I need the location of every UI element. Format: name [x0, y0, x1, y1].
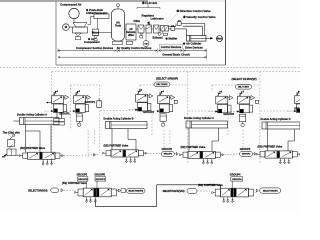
svg-text:SMART/SAFE(V/H): SMART/SAFE(V/H): [163, 190, 185, 193]
svg-text:GROUP5: GROUP5: [78, 179, 88, 181]
compressor C1: [73, 23, 87, 28]
svg-text:Tank: Tank: [115, 24, 122, 28]
clamp cylinder C2: [240, 114, 246, 122]
svg-text:Double Acting Cylinder D: Double Acting Cylinder D: [261, 118, 291, 121]
svg-text:Chiller/Separator: Chiller/Separator: [86, 11, 108, 15]
svg-text:(5/2) PARTNER Valve: (5/2) PARTNER Valve: [62, 182, 87, 185]
svg-text:GROUP4: GROUP4: [230, 174, 241, 177]
outer dashed station box: [52, 71, 300, 73]
svg-text:SELECTOR(V/H): SELECTOR(V/H): [263, 190, 278, 192]
arrow after V8: [116, 190, 118, 192]
general basic circuit box: [0, 0, 148, 2]
motor M: [63, 24, 70, 31]
svg-text:GROUP5: GROUP5: [77, 174, 88, 177]
stadium sel4: [260, 188, 281, 193]
svg-text:Exhaust: Exhaust: [153, 36, 163, 40]
cylinder C ports down: [188, 128, 190, 151]
svg-text:Work: Work: [217, 39, 223, 41]
main dashed bus: [0, 66, 300, 68]
clamp cylinder A2: [76, 114, 82, 122]
svg-text:DBL T2 MOV: DBL T2 MOV: [157, 84, 169, 86]
dashed cylinder boxes: [100, 110, 152, 112]
svg-text:(5/2) PARTNER Valve: (5/2) PARTNER Valve: [20, 147, 45, 150]
valve V7 (cut): [296, 90, 301, 95]
big valve V9: [220, 188, 248, 197]
link valve3 to group3 stadium: [224, 153, 239, 156]
dashed stub verticals: [87, 130, 89, 158]
FLR filter: [138, 25, 144, 33]
svg-text:GROUP2: GROUP2: [164, 154, 173, 156]
direction control valve: [161, 26, 169, 32]
svg-text:⑤ Velocity Control Valve: ⑤ Velocity Control Valve: [183, 15, 216, 19]
air tank: [112, 9, 125, 41]
svg-text:DBL T2 MOV: DBL T2 MOV: [238, 87, 250, 89]
receiver box B: [174, 100, 177, 103]
svg-text:GRP: GRP: [294, 108, 300, 111]
svg-text:Double Acting Cylinder C: Double Acting Cylinder C: [184, 117, 214, 120]
svg-text:Drive Devices: Drive Devices: [185, 45, 203, 49]
svg-text:GROUP2: GROUP2: [143, 111, 154, 114]
svg-text:Compressor: Compressor: [84, 40, 100, 44]
air dehumidifier: [126, 24, 136, 40]
valve V6: [239, 91, 244, 96]
svg-text:⑤ FLR Unit: ⑤ FLR Unit: [142, 1, 157, 5]
V8 exhaust loop: [94, 201, 96, 207]
stadium select1: [154, 82, 170, 87]
valve V2 group1: [75, 90, 80, 95]
stadium sel3: [187, 189, 197, 194]
svg-text:(SELECT S/P)(H/P): (SELECT S/P)(H/P): [156, 77, 178, 80]
svg-text:GROUP4: GROUP4: [232, 178, 242, 181]
valve V5 group3: [217, 91, 222, 96]
svg-text:GROUP2: GROUP2: [162, 148, 173, 151]
svg-text:CW: CW: [144, 43, 147, 45]
svg-text:GROUP3: GROUP3: [242, 154, 251, 156]
svg-text:Compressor Section Devices: Compressor Section Devices: [76, 46, 114, 50]
cylinder A rod: [14, 120, 20, 122]
svg-text:Water: Water: [92, 30, 99, 34]
receiver box A: [97, 101, 102, 108]
svg-text:GROUP5: GROUP5: [96, 179, 106, 181]
velocity control valves: [171, 27, 175, 31]
svg-text:SELECTOR(V/H): SELECTOR(V/H): [128, 191, 143, 193]
chiller/separator: [94, 14, 109, 19]
valve V4: [159, 90, 164, 95]
FLR regulator: [146, 25, 152, 33]
cylinder A ports down: [25, 125, 27, 153]
receiver box C: [256, 100, 259, 103]
svg-text:The (Clip) side: The (Clip) side: [3, 132, 21, 135]
svg-text:GROUP3: GROUP3: [223, 113, 234, 116]
valve V3 group2: [137, 89, 142, 94]
FLR bracket: [137, 7, 160, 9]
svg-text:GROUP1: GROUP1: [85, 101, 96, 104]
svg-text:(SELECT R2 MOV)(P): (SELECT R2 MOV)(P): [232, 78, 257, 81]
svg-text:Filter: Filter: [134, 19, 141, 23]
svg-text:(5/2) PARTNER Valve: (5/2) PARTNER Valve: [258, 146, 283, 149]
cold water circle: [143, 41, 149, 47]
clamp cylinder B2: [160, 114, 166, 122]
stadium sel2: [127, 188, 146, 193]
V1 to cylA stack lines: [56, 113, 58, 119]
svg-text:⑩ Air Cylinder: ⑩ Air Cylinder: [183, 42, 201, 46]
FLR lubricator: [154, 25, 160, 33]
stadium sel1: [51, 188, 59, 193]
svg-text:⑥ Muffler: ⑥ Muffler: [166, 37, 178, 41]
svg-text:Air Quality Control Devices: Air Quality Control Devices: [117, 46, 152, 50]
svg-text:difier: difier: [128, 34, 134, 37]
svg-text:SELECTOR(V/H): SELECTOR(V/H): [28, 189, 48, 192]
svg-text:Double Acting Cylinder B: Double Acting Cylinder B: [104, 117, 134, 120]
svg-text:(5/2) PARTNER Valve: (5/2) PARTNER Valve: [181, 146, 206, 149]
svg-text:General Basic Circuit: General Basic Circuit: [162, 52, 189, 56]
dashed link 1: [64, 154, 99, 157]
dashed separators: [70, 85, 72, 130]
svg-text:Control Devices: Control Devices: [161, 45, 182, 49]
pipes to cylinder: [169, 28, 172, 30]
svg-text:Compressed Air: Compressed Air: [60, 2, 82, 6]
cylinder D ports down: [267, 129, 269, 151]
air cylinder (top): [186, 36, 206, 42]
limit valve: [8, 140, 15, 147]
link valve2 to group2 stadium: [147, 152, 161, 155]
exhaust + muffler: [162, 31, 164, 33]
air intake filter: [69, 8, 79, 18]
stadium select2: [236, 85, 252, 90]
svg-text:GROUP5: GROUP5: [94, 174, 105, 177]
svg-text:Double Acting Cylinder A: Double Acting Cylinder A: [17, 113, 47, 116]
svg-text:(5/2) PARTNER Valve: (5/2) PARTNER Valve: [198, 184, 223, 187]
3/2 roller valve bottom-left: [7, 149, 16, 156]
big valve V8: [83, 188, 111, 197]
svg-text:④ Direction Control Valve: ④ Direction Control Valve: [177, 9, 212, 13]
work circle: [217, 36, 223, 42]
cylinder B ports down: [111, 129, 113, 150]
valve V1 group1: [53, 90, 58, 95]
svg-text:Lubricator: Lubricator: [151, 17, 164, 21]
arrow after V9: [255, 192, 257, 194]
pipe compressor to chiller: [88, 24, 91, 26]
water separator: [93, 29, 99, 35]
svg-text:(5/2) PARTNER Valve: (5/2) PARTNER Valve: [104, 145, 129, 148]
svg-text:GROUP1: GROUP1: [59, 112, 70, 115]
svg-text:GROUP3: GROUP3: [240, 148, 251, 151]
node into V1: [47, 102, 52, 104]
